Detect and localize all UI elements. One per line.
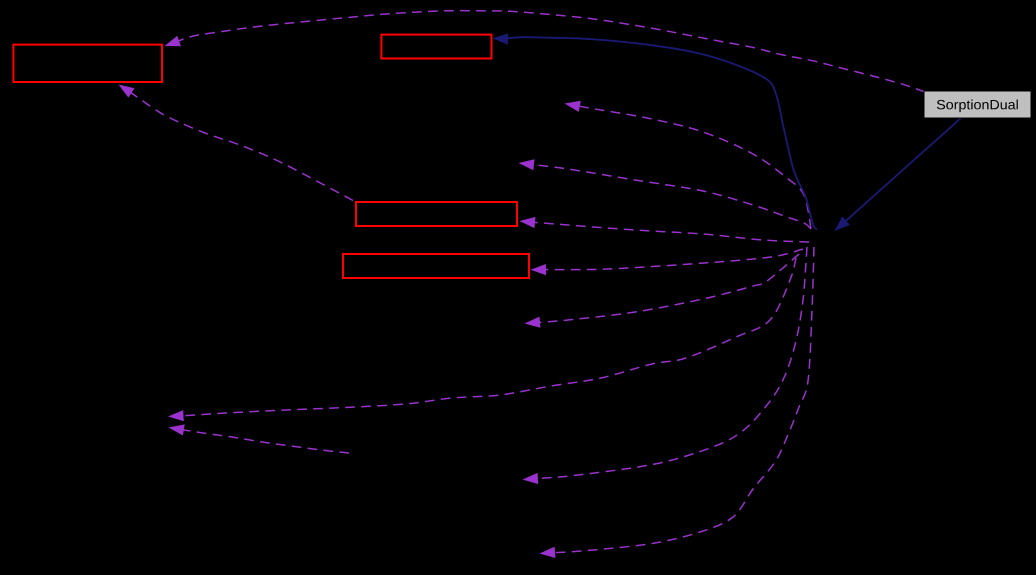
node-box1 (13, 45, 162, 82)
edge-f8 (523, 247, 808, 484)
edge-inherit-label (835, 118, 962, 231)
node-box4 (343, 254, 529, 278)
node-box3 (356, 202, 517, 226)
edge-box3-to-box1 (119, 85, 354, 201)
edge-f3 (519, 159, 812, 229)
edge-f10 (169, 424, 350, 453)
edge-dual-to-box1-arc (165, 11, 926, 92)
edge-f6 (525, 254, 800, 328)
node-box2 (381, 35, 491, 59)
edge-f9 (540, 247, 815, 558)
node-SorptionDual (924, 91, 1031, 118)
edge-f2 (565, 101, 812, 229)
edge-inherit-box2 (493, 33, 818, 229)
edge-f7 (168, 258, 796, 421)
edge-f4 (520, 217, 810, 242)
edge-f5 (531, 249, 804, 275)
